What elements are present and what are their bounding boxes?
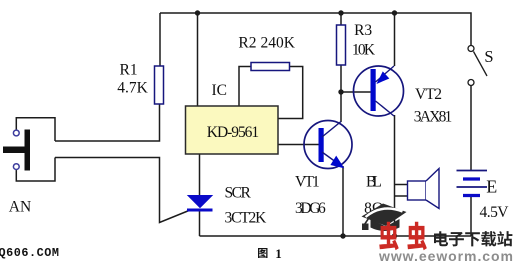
- wire switch to battery: [470, 86, 472, 171]
- battery E plate 3 long: [457, 186, 488, 188]
- transistor VT2 circle: [354, 66, 404, 116]
- svg-text:IC: IC: [212, 82, 228, 99]
- svg-text:www.eeworm.com: www.eeworm.com: [378, 248, 514, 262]
- wire speaker bottom stub: [395, 195, 408, 197]
- watermark red bug characters: [379, 222, 427, 250]
- transistor VT1 emitter stroke: [322, 152, 340, 165]
- svg-text:R2: R2: [238, 34, 256, 51]
- SCR cathode bar: [187, 209, 213, 212]
- svg-text:VT2: VT2: [415, 86, 442, 103]
- node junction R3-VT2 base: [338, 89, 343, 94]
- wire R1 top lead: [159, 13, 161, 66]
- switch S top contact: [468, 46, 474, 52]
- push button AN plunger vertical bar: [25, 130, 31, 171]
- wire top rail: [160, 13, 471, 46]
- wire battery to bottom rail: [470, 197, 472, 236]
- push button AN bottom contact: [13, 164, 19, 170]
- op-amp U1 IC KD-9561 box: [186, 106, 279, 154]
- resistor R2: [251, 63, 290, 71]
- node junction speaker bottom: [392, 233, 397, 238]
- svg-text:KD-9561: KD-9561: [207, 124, 259, 141]
- watermark graduation cap: [362, 204, 407, 232]
- wire VT2 emitter up: [394, 13, 396, 66]
- push button AN plunger horizontal bar: [3, 147, 25, 154]
- transistor VT1 circle: [304, 121, 352, 169]
- svg-text:E: E: [486, 177, 497, 197]
- watermark site name 电子下载站: [434, 231, 512, 246]
- node junction top R3: [338, 10, 343, 15]
- battery E plate 4 short thick: [463, 194, 480, 197]
- battery E plate 2 short thick: [463, 177, 480, 180]
- svg-text:10K: 10K: [352, 41, 376, 58]
- wire IC top pin: [197, 13, 199, 106]
- transistor VT2 collector stroke: [376, 101, 395, 116]
- wire SCR cathode down: [199, 211, 201, 236]
- wire button lower to SCR gate: [55, 158, 189, 223]
- svg-text:240K: 240K: [261, 34, 296, 51]
- svg-text:1: 1: [275, 246, 282, 261]
- svg-text:Q606.COM: Q606.COM: [0, 246, 60, 260]
- transistor VT1 emitter arrow: [331, 157, 343, 168]
- wire R2 right lead: [278, 67, 303, 119]
- svg-text:3DG6: 3DG6: [295, 200, 326, 217]
- speaker BL cone: [426, 169, 439, 209]
- SCR thyristor triangle: [188, 196, 212, 208]
- node junction VT1 emitter bottom: [340, 233, 345, 238]
- wire VT1 emitter down: [342, 166, 344, 236]
- transistor VT2 base bar: [371, 69, 376, 111]
- svg-text:3AX81: 3AX81: [414, 109, 453, 126]
- wire speaker top stub: [395, 184, 408, 186]
- wire R3 top lead: [340, 13, 342, 25]
- wire button lower contact loop: [16, 158, 55, 182]
- wire R3 bottom lead: [340, 65, 342, 92]
- switch S bottom contact: [468, 80, 474, 86]
- switch S blade: [474, 52, 488, 77]
- label figure caption 图: [258, 248, 268, 258]
- wire R2 left lead: [239, 67, 251, 107]
- battery E plate 1 long: [457, 170, 488, 172]
- svg-text:VT1: VT1: [295, 174, 320, 191]
- wire bottom rail: [200, 235, 472, 237]
- push button AN top contact: [13, 130, 19, 136]
- transistor VT1 collector stroke: [322, 122, 341, 138]
- svg-text:4.5V: 4.5V: [480, 204, 510, 221]
- wire VT2 collector down to speaker and bottom rail: [394, 115, 396, 236]
- node junction top IC: [195, 10, 200, 15]
- resistor R1: [155, 66, 164, 104]
- speaker BL box: [408, 181, 427, 200]
- transistor VT1 base bar: [319, 128, 324, 162]
- wire VT1 collector up: [340, 92, 342, 122]
- resistor R3: [337, 25, 346, 65]
- wire R1 bottom lead to button upper wire: [55, 104, 160, 141]
- node junction top VT2: [392, 10, 397, 15]
- transistor VT2 emitter arrow (PNP, points to base): [378, 72, 389, 83]
- svg-text:3CT2K: 3CT2K: [225, 209, 268, 226]
- transistor VT2 emitter stroke: [376, 66, 395, 82]
- wire node B to VT2 base: [341, 91, 371, 93]
- wire button upper contact loop: [16, 118, 55, 141]
- svg-text:4.7K: 4.7K: [117, 79, 148, 96]
- svg-text:R3: R3: [354, 22, 372, 39]
- wire IC bottom pin to SCR anode: [199, 154, 201, 196]
- svg-text:AN: AN: [9, 198, 31, 215]
- wire IC output to VT1 base: [278, 144, 319, 146]
- svg-text:S: S: [484, 47, 493, 66]
- svg-text:R1: R1: [120, 61, 138, 78]
- svg-text:BL: BL: [366, 174, 382, 191]
- svg-text:SCR: SCR: [225, 184, 252, 201]
